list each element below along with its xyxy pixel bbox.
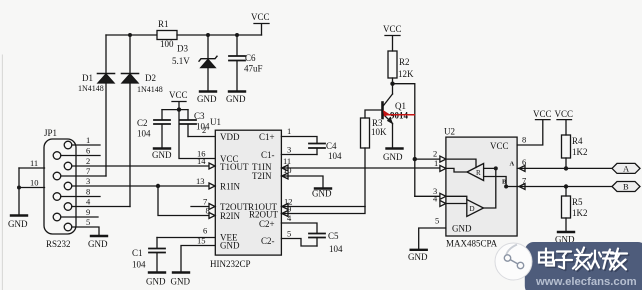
wire Q1 base to R3: [365, 110, 383, 118]
faint page edge line: [1, 55, 3, 290]
svg-text:9: 9: [86, 207, 90, 217]
svg-text:GND: GND: [8, 219, 28, 229]
wire internal B link: [484, 177, 517, 187]
wire JP1 shell pin 10: [19, 187, 45, 189]
svg-text:104: 104: [132, 260, 146, 270]
ground under R5: [555, 232, 575, 245]
resistor R2 12K: [388, 51, 414, 84]
svg-text:1: 1: [434, 158, 438, 168]
svg-text:C2-: C2-: [261, 236, 275, 246]
capacitor C1 104: [132, 238, 165, 273]
wire VCC node to U1 VCC pin 16: [179, 110, 215, 159]
wire U1 C1+ to C4: [281, 137, 317, 144]
wire U1 T2IN to ground: [281, 176, 323, 188]
red annotation 9014: [383, 110, 415, 121]
ground under U2 pin 5: [408, 250, 428, 262]
svg-text:RS232: RS232: [46, 239, 71, 249]
wire shell down to ground: [18, 168, 20, 215]
wire U1 R1OUT to R3: [281, 206, 365, 208]
svg-text:C1+: C1+: [259, 132, 275, 142]
resistor R4 1K2: [562, 135, 588, 168]
svg-text:5: 5: [287, 229, 291, 239]
svg-text:1K2: 1K2: [572, 147, 588, 157]
svg-text:GND: GND: [312, 189, 332, 199]
svg-text:2: 2: [202, 125, 206, 135]
wire U2 pin 5 to ground: [419, 228, 446, 249]
VCC symbol above C2 C3: [169, 90, 188, 110]
capacitor C5 104: [309, 231, 343, 254]
svg-text:D3: D3: [177, 44, 188, 54]
svg-text:VCC: VCC: [251, 12, 270, 22]
svg-text:C4: C4: [326, 141, 337, 151]
resistor R5 1K2: [562, 187, 588, 232]
wire JP1 pin 4 to D2 vertical: [72, 206, 130, 208]
U2 pin 7 arrow: [519, 184, 525, 190]
svg-text:5: 5: [435, 216, 439, 226]
svg-text:B: B: [502, 179, 507, 186]
terminal B hexagon: [612, 182, 640, 192]
svg-text:C6: C6: [245, 53, 256, 63]
svg-text:T1OUT: T1OUT: [220, 162, 249, 172]
resistor R3 10K: [361, 118, 388, 207]
wire U2 pin1 internal to R output: [446, 168, 467, 172]
svg-text:8: 8: [86, 187, 90, 197]
svg-text:8: 8: [522, 135, 526, 145]
IC U2 MAX485CPA body: [444, 127, 517, 249]
wire U1 R1IN junction vertical to R2IN: [158, 186, 209, 216]
wire U2 pin2 internal to R enable: [446, 159, 476, 167]
svg-text:R2OUT: R2OUT: [249, 210, 279, 220]
wire top power rail right segment: [177, 34, 262, 36]
svg-text:A: A: [623, 164, 630, 174]
node junction R4 A line: [564, 166, 568, 170]
ground under Q1 emitter: [383, 149, 403, 163]
wire internal A link: [484, 168, 496, 208]
ground under C2: [152, 149, 172, 161]
ground under C6: [226, 92, 246, 105]
wire U2 pin 8 to VCC: [517, 120, 543, 145]
receiver triangle R inside U2: [467, 164, 484, 181]
node junction Q1 collector: [390, 82, 394, 86]
driver triangle D inside U2: [467, 200, 484, 217]
connector JP1 DB9 body: [44, 128, 76, 249]
svg-text:104: 104: [329, 244, 343, 254]
U2 pin arrows left: [440, 156, 446, 206]
wire JP1 pin 7 to D1: [61, 175, 106, 177]
svg-text:C3: C3: [194, 111, 205, 121]
wire JP1 shell pin 11: [19, 167, 45, 169]
svg-text:VCC: VCC: [383, 24, 402, 34]
svg-text:1N4148: 1N4148: [78, 84, 104, 93]
svg-text:5.1V: 5.1V: [172, 56, 190, 66]
svg-text:www.elecfans.com: www.elecfans.com: [535, 276, 637, 288]
U2 pin 6 arrow: [519, 165, 525, 171]
JP1 pin circles left column 6,7,8,9: [53, 152, 61, 160]
svg-text:1N4148: 1N4148: [137, 85, 163, 94]
svg-text:GND: GND: [197, 94, 217, 104]
ground left of JP1: [8, 216, 28, 230]
JP1 pin 9 stub: [61, 216, 98, 218]
svg-text:JP1: JP1: [44, 128, 57, 138]
wire C4 to U1 C1-: [281, 154, 317, 156]
svg-text:1K2: 1K2: [572, 208, 588, 218]
node junction VCC C2 C3: [177, 107, 181, 111]
svg-text:D2: D2: [145, 73, 156, 83]
svg-text:47uF: 47uF: [244, 64, 263, 74]
svg-text:GND: GND: [226, 94, 246, 104]
zener diode D3 5.1V: [172, 35, 217, 91]
wire to U2 pin 3: [415, 195, 446, 197]
svg-text:2: 2: [433, 149, 437, 159]
U1 pin arrows right: [282, 165, 288, 217]
svg-text:15: 15: [197, 236, 206, 246]
node junction D2-rail: [128, 33, 132, 37]
svg-text:VCC: VCC: [490, 141, 509, 151]
svg-text:14: 14: [197, 156, 206, 166]
wire top power rail left segment: [106, 34, 157, 36]
svg-text:VCC: VCC: [555, 109, 574, 119]
svg-text:GND: GND: [408, 252, 428, 262]
svg-text:HIN232CP: HIN232CP: [210, 259, 251, 269]
svg-text:11: 11: [30, 158, 38, 168]
svg-text:7: 7: [86, 166, 90, 176]
svg-text:6: 6: [86, 146, 90, 156]
svg-text:4: 4: [433, 194, 438, 204]
svg-text:R4: R4: [572, 136, 583, 146]
diode D2 1N4148: [122, 35, 163, 207]
svg-text:GND: GND: [383, 152, 403, 162]
svg-text:6: 6: [203, 226, 207, 236]
svg-text:VCC: VCC: [533, 109, 552, 119]
wire JP1 pin 3 to U1 R1IN: [72, 185, 209, 187]
svg-text:R5: R5: [572, 197, 583, 207]
svg-text:R2IN: R2IN: [220, 211, 241, 221]
svg-text:C1-: C1-: [261, 150, 275, 160]
U2 pin numbers: [433, 135, 526, 226]
svg-text:VCC: VCC: [169, 90, 188, 100]
ground under D3: [197, 92, 217, 105]
U1 pin arrows left: [209, 163, 215, 219]
svg-text:100: 100: [160, 39, 174, 49]
wire U1 VEE pin 6 to C1: [157, 237, 215, 239]
JP1 pin circles right column 1,2,3,4,5: [64, 141, 72, 149]
U1 pin numbers: [196, 125, 293, 246]
node junction shell wires: [17, 186, 21, 190]
svg-text:GND: GND: [452, 224, 472, 234]
wire C3 to U1 VDD pin 2: [188, 136, 215, 138]
svg-text:5: 5: [86, 217, 90, 227]
JP1 pin 8 stub: [61, 196, 100, 198]
wire A line: [517, 167, 612, 169]
IC U1 HIN232CP body: [210, 117, 281, 269]
VCC symbol above U2 pin 8: [533, 109, 552, 120]
svg-text:1: 1: [86, 135, 90, 145]
svg-text:D: D: [470, 205, 475, 213]
svg-text:R: R: [476, 169, 481, 177]
svg-text:1: 1: [287, 126, 291, 136]
wire JP1 pin 2 to U1 T1OUT: [72, 165, 209, 167]
node junction internal B: [504, 185, 508, 189]
svg-text:104: 104: [328, 151, 342, 161]
node junction U2 RE pin 2: [413, 157, 417, 161]
node junction R5 B line: [564, 184, 568, 188]
capacitor C6 47uF: [229, 35, 263, 91]
watermark logo ball: [495, 243, 532, 280]
svg-text:4: 4: [86, 197, 91, 207]
svg-text:GND: GND: [152, 150, 172, 160]
svg-text:13: 13: [196, 176, 205, 186]
wire U2 pin4 internal to D input: [446, 203, 467, 205]
svg-text:MAX485CPA: MAX485CPA: [446, 239, 498, 249]
ground under JP1 pin 5: [88, 236, 108, 249]
U1 right column labels: [248, 132, 279, 246]
svg-text:C2: C2: [137, 118, 148, 128]
wire to U2 pin 2: [415, 158, 446, 160]
wire U1 C2- to C5 bottom: [281, 239, 317, 247]
svg-text:3: 3: [287, 145, 291, 155]
capacitor C2 104: [137, 110, 170, 148]
wire U1 R2OUT join R1OUT: [281, 207, 365, 214]
resistor R1: [157, 31, 177, 40]
watermark chinese glyphs: [540, 249, 628, 271]
svg-text:U2: U2: [444, 127, 455, 137]
svg-text:GND: GND: [171, 277, 191, 287]
svg-text:2: 2: [86, 156, 90, 166]
wire JP1 pin 5 to ground: [72, 227, 99, 236]
node junction D3-rail: [206, 33, 210, 37]
JP1 pin 6 stub: [61, 155, 100, 157]
capacitor C4 104: [309, 141, 342, 161]
svg-text:T2IN: T2IN: [252, 171, 272, 181]
svg-text:R1IN: R1IN: [220, 182, 241, 192]
svg-text:D1: D1: [82, 73, 93, 83]
wire U2 pin3 internal to D enable: [446, 196, 467, 199]
JP1 pin 1 stub: [72, 144, 100, 146]
wire U1 GND pin 15 to ground: [181, 246, 215, 273]
svg-text:10: 10: [30, 178, 39, 188]
svg-text:GND: GND: [88, 239, 108, 249]
node junction R1IN wire: [156, 184, 160, 188]
svg-text:U1: U1: [210, 117, 221, 127]
VCC symbol top right: [251, 12, 270, 35]
transistor Q1: [383, 84, 407, 148]
watermark elecfans box: [525, 242, 642, 290]
terminal A hexagon: [612, 163, 640, 173]
wire collector node to U2 direction control: [393, 84, 415, 197]
VCC symbol above R2: [383, 24, 402, 51]
wire U1 T1IN to U2 RO: [281, 167, 446, 169]
capacitor C3 104: [180, 110, 210, 137]
svg-text:GND: GND: [220, 241, 240, 251]
VCC symbol above R4: [555, 109, 574, 135]
node junction C6-rail: [235, 33, 239, 37]
svg-text:C5: C5: [328, 231, 339, 241]
svg-text:104: 104: [137, 129, 151, 139]
svg-text:B: B: [623, 182, 629, 192]
svg-text:Q1: Q1: [395, 101, 406, 111]
wire stub U1 T2OUT: [191, 206, 209, 208]
wire U1 C2+ to C5: [281, 223, 317, 233]
ground under U1 pin 15: [171, 273, 191, 287]
svg-text:12K: 12K: [398, 69, 414, 79]
ground under C1: [146, 273, 166, 287]
svg-text:C1: C1: [132, 248, 143, 258]
node junction internal A: [494, 166, 498, 170]
svg-text:R2: R2: [399, 57, 410, 67]
U1 left column labels: [220, 132, 249, 251]
svg-text:C2+: C2+: [259, 219, 275, 229]
svg-text:VDD: VDD: [220, 132, 240, 142]
wire VCC node branches: [162, 109, 188, 111]
wire B line: [517, 186, 612, 188]
svg-text:GND: GND: [146, 277, 166, 287]
ground under T2IN: [312, 189, 332, 199]
svg-text:10K: 10K: [371, 127, 387, 137]
svg-text:3: 3: [86, 176, 90, 186]
svg-text:A: A: [510, 161, 515, 168]
svg-text:R1: R1: [158, 19, 169, 29]
diode D1 1N4148: [78, 35, 115, 176]
